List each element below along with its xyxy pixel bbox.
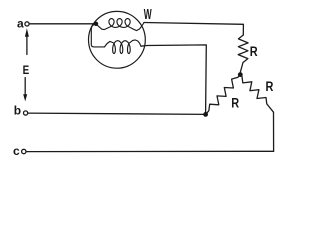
wattmeter U1 circle	[89, 11, 146, 68]
wire b-line	[28, 113, 206, 114]
svg-text:R: R	[250, 44, 258, 60]
svg-text:c: c	[13, 144, 20, 158]
resistor R1 (top, vertical)	[238, 35, 248, 72]
wattmeter voltage coil lead (left)	[91, 24, 104, 47]
node: wattmeter left junction	[94, 22, 98, 26]
wire voltage-coil to node (right of meter, down to b junction)	[141, 45, 206, 112]
svg-text:R: R	[266, 79, 274, 95]
resistor R3 (right diagonal)	[240, 75, 273, 152]
svg-text:R: R	[231, 95, 239, 111]
terminal c	[22, 149, 26, 153]
wattmeter current coil (top)	[96, 19, 144, 31]
wattmeter voltage coil (bottom)	[105, 40, 142, 54]
wire a-line right to corner	[144, 23, 243, 36]
svg-text:a: a	[17, 17, 24, 31]
arrow down (toward b)	[24, 78, 26, 95]
wire a-line left	[29, 23, 96, 25]
wire c-line	[26, 150, 273, 152]
svg-text:b: b	[14, 104, 21, 118]
svg-text:W: W	[144, 5, 152, 22]
resistor R2 (left diagonal)	[206, 75, 241, 115]
terminal b	[24, 111, 28, 115]
terminal a	[25, 22, 29, 26]
node: b-line junction	[203, 112, 208, 117]
svg-text:E: E	[23, 64, 30, 77]
arrow up (toward a)	[26, 37, 28, 55]
node: wye center	[238, 72, 243, 77]
